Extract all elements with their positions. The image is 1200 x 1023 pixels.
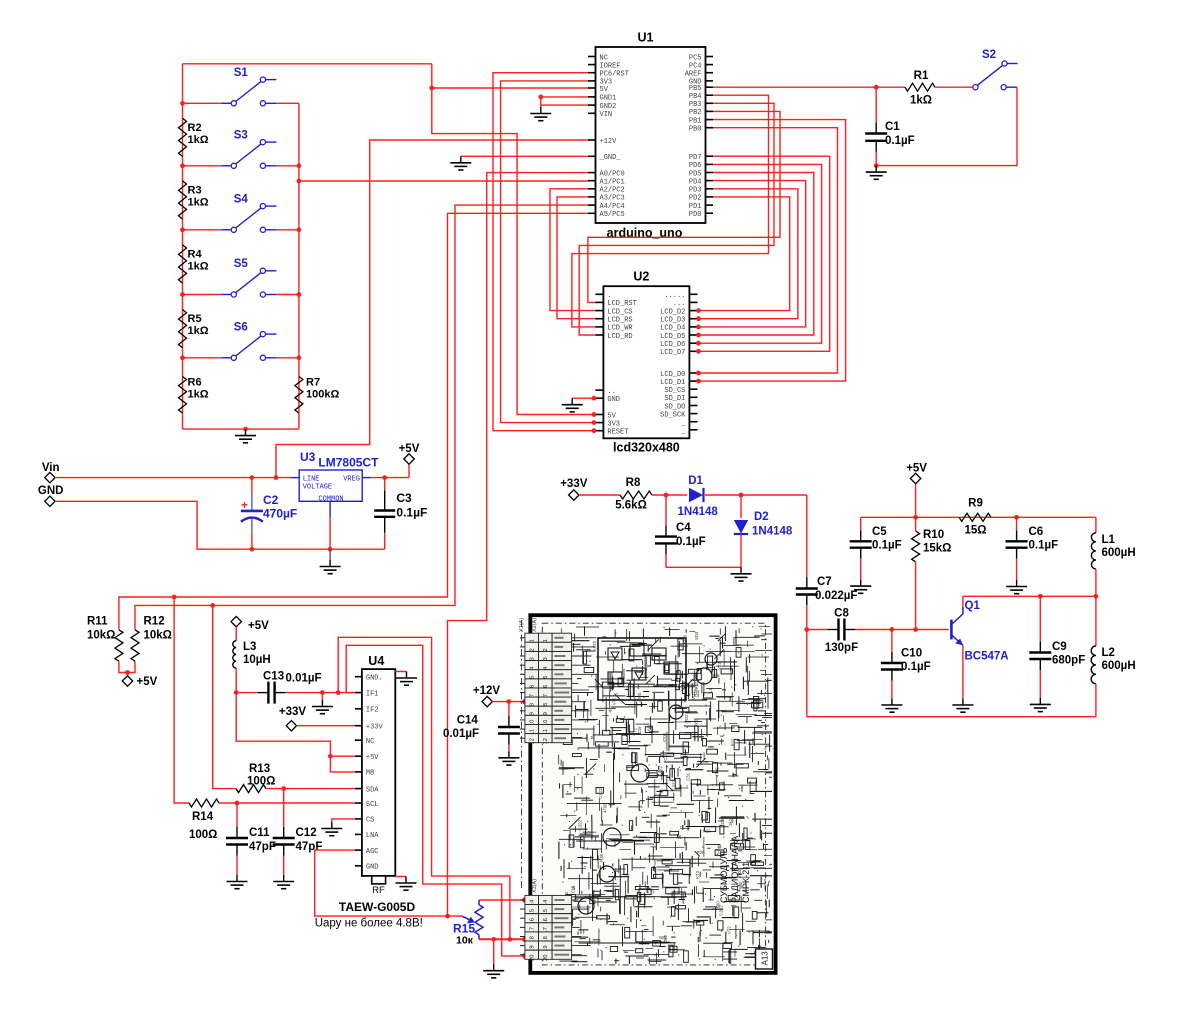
svg-text:R1: R1 (914, 70, 929, 82)
svg-text:SD_DO: SD_DO (664, 403, 685, 411)
svg-text:1kΩ: 1kΩ (188, 325, 209, 337)
svg-text:C31: C31 (686, 772, 691, 780)
svg-text:0.1µF: 0.1µF (396, 506, 427, 520)
svg-text:10kΩ: 10kΩ (87, 630, 115, 642)
svg-text:R28: R28 (693, 688, 698, 696)
svg-text:PB3: PB3 (689, 101, 702, 109)
svg-text:S6: S6 (234, 321, 248, 333)
svg-text:5V: 5V (600, 86, 609, 94)
svg-text:R6: R6 (188, 376, 202, 388)
svg-text:C11: C11 (249, 827, 270, 839)
svg-text:R12: R12 (144, 616, 165, 628)
svg-text:LCD_RD: LCD_RD (607, 333, 632, 341)
svg-text:LCD_D6: LCD_D6 (660, 341, 685, 349)
svg-text:LCD_D5: LCD_D5 (660, 333, 685, 341)
svg-text:PD0: PD0 (689, 211, 702, 219)
svg-text:Uару не более 4.8В!: Uару не более 4.8В! (315, 918, 423, 930)
svg-text:VT2: VT2 (727, 926, 732, 934)
svg-text:100k: 100k (711, 673, 721, 678)
svg-text:R3: R3 (188, 184, 202, 196)
svg-text:2: 2 (529, 648, 535, 651)
svg-text:+5V: +5V (399, 443, 420, 455)
svg-text:C31: C31 (720, 816, 725, 824)
svg-text:D1: D1 (688, 475, 703, 487)
svg-text:0.022µF: 0.022µF (815, 590, 857, 602)
svg-text:+: + (241, 498, 248, 512)
svg-text:SD_DI: SD_DI (664, 395, 685, 403)
svg-text:1N4148: 1N4148 (752, 526, 793, 538)
svg-text:R12: R12 (703, 828, 711, 833)
svg-text:47n: 47n (644, 664, 649, 672)
svg-text:R13: R13 (249, 763, 270, 775)
svg-text:20: 20 (543, 954, 549, 960)
svg-text:KT3: KT3 (695, 870, 700, 878)
svg-text:R9: R9 (968, 498, 983, 510)
svg-text:7: 7 (543, 694, 549, 697)
svg-text:TAEW-G005D: TAEW-G005D (339, 900, 416, 914)
svg-text:C12: C12 (296, 827, 317, 839)
svg-text:680pF: 680pF (1052, 655, 1085, 667)
svg-text:3: 3 (529, 657, 535, 660)
svg-text:GND: GND (607, 396, 620, 404)
svg-text:AREF: AREF (685, 71, 702, 79)
svg-text:AGC: AGC (366, 848, 379, 856)
svg-text:A5/PC5: A5/PC5 (600, 211, 625, 219)
svg-text:L2: L2 (1102, 647, 1115, 659)
svg-text:2k2: 2k2 (728, 818, 733, 825)
svg-text:100Ω: 100Ω (247, 776, 275, 788)
svg-text:680: 680 (647, 723, 652, 731)
svg-text:VOLTAGE: VOLTAGE (303, 484, 332, 492)
svg-text:130pF: 130pF (825, 642, 858, 654)
svg-text:3: 3 (543, 657, 549, 660)
svg-text:_GND_: _GND_ (599, 154, 622, 162)
svg-text:R5: R5 (188, 313, 202, 325)
svg-text:U1: U1 (638, 31, 654, 45)
svg-text:Q1: Q1 (965, 600, 981, 612)
svg-text:.....: ..... (664, 292, 685, 300)
svg-text:S5: S5 (234, 258, 249, 270)
svg-text:.: . (607, 292, 611, 300)
svg-text:0,022: 0,022 (598, 787, 603, 798)
svg-text:PD4: PD4 (689, 178, 702, 186)
svg-text:9: 9 (529, 712, 535, 715)
svg-text:SCL: SCL (366, 801, 379, 809)
svg-text:СМРК-2-1: СМРК-2-1 (741, 862, 751, 903)
svg-text:C31: C31 (663, 752, 668, 760)
svg-text:+12V: +12V (600, 138, 618, 146)
svg-text:0.1µF: 0.1µF (1029, 540, 1059, 552)
svg-text:R28: R28 (599, 853, 604, 861)
svg-text:LCD_D4: LCD_D4 (660, 325, 685, 333)
svg-text:MB: MB (366, 770, 374, 778)
svg-text:X2(A): X2(A) (532, 618, 538, 632)
svg-text:SDA: SDA (366, 786, 379, 794)
svg-text:LCD_CS: LCD_CS (607, 308, 632, 316)
svg-text:R8: R8 (626, 477, 641, 489)
svg-text:6: 6 (529, 685, 535, 688)
svg-text:R12: R12 (730, 738, 735, 746)
svg-text:+33V: +33V (560, 478, 588, 490)
svg-text:U3: U3 (300, 450, 316, 464)
svg-text:C1: C1 (885, 121, 900, 133)
svg-text:VIN: VIN (600, 111, 613, 119)
svg-text:A3/PC3: A3/PC3 (600, 195, 625, 203)
svg-text:GND1: GND1 (600, 95, 617, 103)
svg-text:SD3: SD3 (694, 631, 699, 640)
svg-text:12: 12 (543, 738, 549, 744)
svg-text:1kΩ: 1kΩ (188, 134, 209, 146)
svg-text:LINE: LINE (303, 475, 320, 483)
svg-text:47pF: 47pF (296, 841, 323, 853)
svg-text:R2: R2 (188, 122, 202, 134)
svg-text:12: 12 (529, 738, 535, 744)
svg-text:0,022: 0,022 (671, 780, 676, 791)
svg-text:1kΩ: 1kΩ (188, 196, 209, 208)
svg-text:СУБМОДУЛЬ: СУБМОДУЛЬ (719, 847, 729, 903)
svg-text:C9: C9 (1052, 641, 1067, 653)
svg-text:PD7: PD7 (689, 154, 702, 162)
svg-text:C15: C15 (637, 726, 642, 734)
svg-text:GND: GND (38, 485, 64, 497)
svg-text:10kΩ: 10kΩ (144, 630, 172, 642)
svg-text:L5: L5 (708, 687, 713, 692)
svg-text:4700: 4700 (683, 634, 688, 644)
svg-text:A0/PC0: A0/PC0 (600, 170, 625, 178)
svg-text:SD_SCK: SD_SCK (660, 411, 686, 419)
svg-text:GND2: GND2 (600, 103, 617, 111)
svg-text:100kΩ: 100kΩ (306, 389, 339, 401)
svg-text:470µF: 470µF (263, 507, 297, 521)
svg-text:0.1µF: 0.1µF (872, 540, 902, 552)
svg-text:LCD_WR: LCD_WR (607, 325, 633, 333)
svg-text:C2: C2 (263, 493, 279, 507)
svg-text:4700: 4700 (715, 767, 720, 777)
svg-text:NC: NC (600, 54, 608, 62)
svg-text:5: 5 (529, 676, 535, 679)
svg-text:+5V: +5V (906, 463, 927, 475)
svg-text:GND.: GND. (366, 675, 383, 683)
svg-text:10к: 10к (456, 935, 474, 947)
svg-text:0.1µF: 0.1µF (885, 135, 915, 147)
svg-text:R12: R12 (694, 681, 699, 689)
svg-text:6: 6 (543, 685, 549, 688)
svg-text:+5V: +5V (366, 754, 379, 762)
svg-text:A4/PC4: A4/PC4 (600, 203, 625, 211)
svg-text:RESET: RESET (607, 429, 628, 437)
svg-text:8: 8 (543, 703, 549, 706)
svg-text:L3: L3 (243, 641, 256, 653)
svg-text:GND: GND (366, 864, 379, 872)
svg-text:PD2: PD2 (689, 195, 702, 203)
svg-text:C7: C7 (817, 576, 832, 588)
svg-text:4700: 4700 (602, 803, 607, 813)
svg-text:S4: S4 (234, 193, 249, 205)
svg-text:1N4148: 1N4148 (678, 506, 719, 518)
svg-text:VT2: VT2 (612, 697, 617, 705)
svg-text:R10: R10 (923, 529, 944, 541)
svg-text:U2: U2 (633, 270, 649, 284)
svg-text:D2: D2 (754, 511, 769, 523)
svg-text:0.01µF: 0.01µF (286, 673, 322, 685)
svg-text:+5V: +5V (137, 676, 158, 688)
svg-text:1kΩ: 1kΩ (910, 95, 932, 107)
svg-text:C6: C6 (1029, 526, 1044, 538)
svg-text:680: 680 (659, 935, 667, 940)
svg-text:1: 1 (543, 639, 549, 642)
svg-text:PD5: PD5 (689, 170, 702, 178)
svg-text:1: 1 (529, 639, 535, 642)
svg-text:R14: R14 (192, 811, 214, 823)
svg-text:C5: C5 (872, 526, 887, 538)
svg-text:X1(A): X1(A) (519, 618, 525, 632)
svg-text:BC547A: BC547A (965, 651, 1009, 663)
svg-text:S1: S1 (234, 67, 249, 79)
svg-text:PC6/RST: PC6/RST (600, 71, 629, 79)
svg-text:15Ω: 15Ω (964, 525, 986, 537)
svg-text:VREG: VREG (343, 475, 360, 483)
svg-text:_: _ (680, 420, 686, 428)
svg-text:4700: 4700 (637, 692, 642, 702)
svg-text:R4: R4 (188, 248, 203, 260)
svg-text:_: _ (680, 428, 686, 436)
svg-text:C4: C4 (676, 522, 691, 534)
svg-text:VD2: VD2 (684, 714, 689, 723)
svg-text:C3: C3 (396, 491, 412, 505)
svg-text:9: 9 (543, 712, 549, 715)
svg-text:5: 5 (543, 676, 549, 679)
svg-text:47pF: 47pF (249, 841, 276, 853)
svg-text:600µH: 600µH (1102, 660, 1136, 672)
svg-text:680: 680 (693, 718, 698, 726)
svg-text:PB0: PB0 (689, 126, 702, 134)
svg-text:+33V: +33V (279, 706, 307, 718)
svg-text:PD3: PD3 (689, 187, 702, 195)
svg-text:COMMON: COMMON (318, 495, 343, 503)
svg-text:2: 2 (543, 648, 549, 651)
svg-text:PB5: PB5 (689, 85, 702, 93)
svg-text:РАДИОКАНАЛА: РАДИОКАНАЛА (730, 836, 740, 903)
svg-text:A1/PC1: A1/PC1 (600, 179, 625, 187)
svg-text:0,022: 0,022 (578, 819, 583, 830)
svg-text:0,022: 0,022 (592, 640, 597, 651)
svg-text:A2/PC2: A2/PC2 (600, 187, 625, 195)
svg-text:LNA: LNA (366, 832, 379, 840)
svg-text:1kΩ: 1kΩ (188, 388, 209, 400)
svg-text:PB2: PB2 (689, 109, 702, 117)
svg-text:lcd320x480: lcd320x480 (613, 441, 680, 455)
svg-text:IF1: IF1 (366, 690, 379, 698)
svg-text:VT2: VT2 (632, 727, 637, 735)
svg-text:R7: R7 (306, 377, 320, 389)
svg-text:0,022: 0,022 (719, 905, 724, 916)
svg-text:20: 20 (529, 954, 535, 960)
svg-text:LCD_RST: LCD_RST (607, 300, 636, 308)
svg-text:CS: CS (366, 817, 374, 825)
svg-text:C14: C14 (457, 715, 479, 727)
svg-text:PB1: PB1 (689, 117, 702, 125)
svg-text:1kΩ: 1kΩ (188, 260, 209, 272)
svg-text:5V: 5V (607, 412, 616, 420)
svg-text:LCD_D3: LCD_D3 (660, 317, 685, 325)
svg-text:0.01µF: 0.01µF (443, 728, 479, 740)
svg-text:S2: S2 (982, 49, 996, 61)
svg-text:LCD_D2: LCD_D2 (660, 308, 685, 316)
svg-text:C10: C10 (901, 648, 922, 660)
svg-text:4700: 4700 (611, 887, 616, 897)
svg-text:R15: R15 (453, 922, 475, 936)
svg-text:C15: C15 (571, 885, 576, 893)
svg-text:4700: 4700 (662, 732, 667, 742)
svg-text:5.6kΩ: 5.6kΩ (615, 500, 647, 512)
svg-text:А13: А13 (761, 951, 770, 966)
svg-text:L5: L5 (614, 868, 619, 873)
svg-text:LCD_D7: LCD_D7 (660, 349, 685, 357)
svg-text:0.1µF: 0.1µF (901, 661, 931, 673)
svg-text:7: 7 (529, 694, 535, 697)
svg-text:LCD_D1: LCD_D1 (660, 379, 685, 387)
svg-text:R11: R11 (87, 616, 108, 628)
svg-text:LCD_D0: LCD_D0 (660, 371, 685, 379)
svg-text:+5V: +5V (248, 620, 269, 632)
svg-text:U4: U4 (368, 654, 384, 668)
svg-text:8: 8 (529, 703, 535, 706)
svg-text:10µH: 10µH (243, 654, 271, 666)
svg-text:S3: S3 (234, 129, 248, 141)
svg-text:PC4: PC4 (689, 62, 702, 70)
svg-text:VD2: VD2 (571, 839, 576, 848)
svg-text:+12V: +12V (473, 685, 501, 697)
svg-text:VT2: VT2 (717, 662, 722, 670)
svg-text:PD1: PD1 (689, 203, 702, 211)
svg-text:15kΩ: 15kΩ (923, 543, 951, 555)
svg-text:600µH: 600µH (1102, 547, 1136, 559)
svg-text:+33V: +33V (366, 724, 384, 732)
svg-text:..: .. (607, 388, 615, 396)
svg-text:IOREF: IOREF (600, 62, 621, 70)
svg-text:L1: L1 (1102, 534, 1116, 546)
svg-text:Vin: Vin (42, 462, 60, 474)
svg-text:SD_CS: SD_CS (664, 387, 685, 395)
svg-text:C8: C8 (834, 608, 849, 620)
svg-text:NC: NC (366, 738, 374, 746)
svg-text:0.1µF: 0.1µF (676, 536, 706, 548)
svg-text:IF2: IF2 (366, 707, 379, 715)
svg-text:X3(A): X3(A) (532, 879, 538, 893)
svg-text:PC5: PC5 (689, 54, 702, 62)
svg-text:RF: RF (372, 885, 385, 896)
svg-text:LCD_RS: LCD_RS (607, 317, 632, 325)
svg-text:...: ... (673, 300, 686, 308)
svg-text:KT3: KT3 (647, 890, 655, 895)
svg-text:LM7805CT: LM7805CT (318, 455, 379, 469)
svg-text:100Ω: 100Ω (189, 829, 217, 841)
svg-text:PD6: PD6 (689, 162, 702, 170)
svg-text:PB4: PB4 (689, 93, 702, 101)
svg-text:C13: C13 (263, 671, 284, 683)
svg-text:3V3: 3V3 (607, 420, 620, 428)
